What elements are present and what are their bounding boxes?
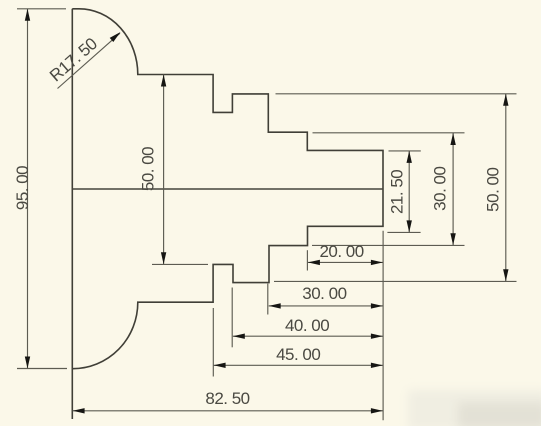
dim 20.00 left extension — [306, 250, 308, 270]
arrow 21.50 bottom — [407, 220, 412, 232]
arrow right 50.00 top — [503, 94, 508, 106]
arrow 45.00 right — [371, 363, 383, 368]
arrow 95.00 top — [25, 9, 30, 21]
dim right 30.00 bottom extension — [312, 244, 465, 246]
svg-text:95. 00: 95. 00 — [13, 166, 32, 210]
arrow 82.50 right — [371, 408, 383, 413]
arrow right 30.00 bottom — [450, 233, 455, 245]
dim right 50.00 line — [505, 94, 507, 281]
dim bottom 30.00 line — [269, 305, 383, 307]
dim bottom 30.00 left extension — [267, 284, 269, 315]
arrow mid 50.00 bottom — [161, 252, 166, 264]
dim 21.50 bottom extension — [387, 231, 420, 233]
leader line R17.50 — [58, 33, 121, 88]
svg-text:21. 50: 21. 50 — [387, 170, 406, 214]
arrow mid 50.00 top — [161, 75, 166, 87]
arrow 20.00 left — [308, 260, 320, 265]
dim 21.50 line — [408, 151, 410, 233]
arrow right 30.00 top — [450, 133, 455, 145]
dim mid 50.00 line — [163, 75, 165, 265]
dim 95.00 bottom extension — [17, 368, 67, 370]
dim 40.00 line — [233, 335, 383, 337]
arrow 21.50 top — [407, 151, 412, 163]
arrow R17.50 leader — [110, 32, 121, 42]
watermark smudge bottom-right — [408, 390, 541, 426]
dim 95.00 top extension — [17, 8, 66, 10]
svg-text:50. 00: 50. 00 — [138, 147, 157, 191]
arrow 40.00 left — [233, 334, 245, 339]
dim right 50.00 top extension — [276, 93, 517, 95]
dim 45.00 left extension — [212, 308, 214, 377]
svg-text:30. 00: 30. 00 — [302, 284, 346, 303]
flange left edge (extended down to 82.50 dimension) — [71, 9, 73, 419]
arrow 20.00 right — [371, 260, 383, 265]
dim 95.00 line — [27, 9, 29, 369]
svg-text:40. 00: 40. 00 — [285, 316, 329, 335]
dim mid 50.00 bottom extension — [152, 263, 208, 265]
svg-text:30. 00: 30. 00 — [430, 167, 449, 211]
centerline — [72, 188, 383, 190]
dim 82.50 line — [73, 410, 383, 412]
dim right 50.00 bottom extension — [274, 280, 517, 282]
arrow 82.50 left — [73, 408, 85, 413]
arrow bottom 30.00 left — [269, 303, 281, 308]
svg-text:82. 50: 82. 50 — [205, 389, 249, 408]
dim right 30.00 top extension — [313, 132, 465, 134]
right common extension line — [382, 231, 384, 420]
arrow 45.00 left — [214, 363, 226, 368]
svg-text:45. 00: 45. 00 — [276, 345, 320, 364]
arrow right 50.00 bottom — [503, 269, 508, 281]
dim 45.00 line — [214, 364, 383, 366]
arrow 40.00 right — [371, 334, 383, 339]
part outer profile — [72, 9, 383, 369]
dim 20.00 line — [308, 261, 383, 263]
dim 21.50 top extension — [389, 150, 421, 152]
dim 40.00 left extension — [231, 288, 233, 348]
dim right 30.00 line — [452, 133, 454, 245]
svg-text:20. 00: 20. 00 — [319, 242, 363, 261]
arrow 95.00 bottom — [25, 357, 30, 369]
arrow bottom 30.00 right — [371, 303, 383, 308]
svg-text:50. 00: 50. 00 — [484, 168, 503, 212]
